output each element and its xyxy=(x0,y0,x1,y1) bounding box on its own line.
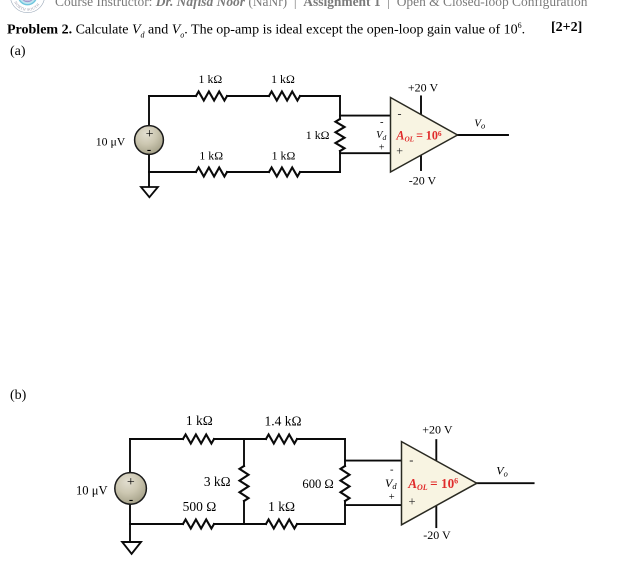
svg-text:-: - xyxy=(380,117,384,128)
svg-text:Vd: Vd xyxy=(385,476,397,491)
svg-text:+: + xyxy=(127,475,135,490)
svg-text:Vd: Vd xyxy=(376,130,386,142)
svg-text:3 kΩ: 3 kΩ xyxy=(204,474,231,489)
svg-text:+: + xyxy=(379,143,385,154)
svg-text:-: - xyxy=(390,465,394,476)
svg-text:-20 V: -20 V xyxy=(423,528,451,542)
svg-text:+: + xyxy=(408,494,415,508)
svg-text:-: - xyxy=(398,107,402,121)
svg-text:+20 V: +20 V xyxy=(408,81,439,95)
svg-text:AOL=106: AOL=106 xyxy=(407,476,458,492)
svg-text:500 Ω: 500 Ω xyxy=(183,499,217,514)
svg-text:-: - xyxy=(409,453,413,467)
svg-text:1 kΩ: 1 kΩ xyxy=(186,413,213,428)
svg-text:-: - xyxy=(129,492,133,507)
svg-text:+20 V: +20 V xyxy=(422,423,453,437)
svg-text:Vo: Vo xyxy=(496,464,508,479)
svg-text:-20 V: -20 V xyxy=(409,173,437,187)
svg-text:+: + xyxy=(389,492,395,503)
svg-text:10 μV: 10 μV xyxy=(96,134,126,148)
svg-text:1 kΩ: 1 kΩ xyxy=(199,148,223,162)
svg-text:-: - xyxy=(147,141,151,156)
svg-text:1.4 kΩ: 1.4 kΩ xyxy=(264,414,301,429)
svg-text:1 kΩ: 1 kΩ xyxy=(271,72,295,86)
svg-text:Vo: Vo xyxy=(474,118,486,131)
svg-text:1 kΩ: 1 kΩ xyxy=(306,128,330,142)
svg-text:+: + xyxy=(146,127,154,142)
svg-text:+: + xyxy=(396,144,403,158)
svg-text:600 Ω: 600 Ω xyxy=(302,477,333,491)
svg-text:10 μV: 10 μV xyxy=(76,484,108,498)
svg-text:AOL=106: AOL=106 xyxy=(395,129,441,144)
svg-text:1 kΩ: 1 kΩ xyxy=(268,499,295,514)
svg-text:1 kΩ: 1 kΩ xyxy=(272,148,296,162)
svg-text:1 kΩ: 1 kΩ xyxy=(199,72,223,86)
